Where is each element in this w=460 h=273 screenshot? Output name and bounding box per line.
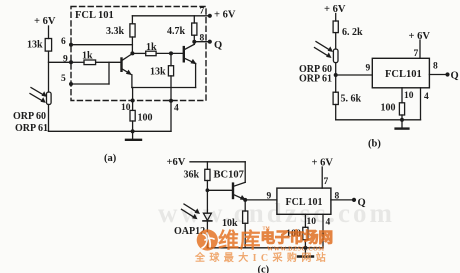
pin 4 (c) (323, 214, 331, 248)
caption (b) (368, 139, 381, 150)
svg-text:FCL101: FCL101 (385, 69, 422, 80)
photoresistor ORP60/61 (b) (315, 42, 339, 63)
bottom wire (b) (336, 88, 421, 120)
svg-text:维库: 维库 (218, 229, 261, 253)
svg-text:4.7k: 4.7k (167, 26, 186, 37)
pin 8 output Q (b) (429, 62, 458, 82)
svg-text:36k: 36k (184, 170, 200, 181)
wire +6V to R 13k (48, 26, 50, 39)
svg-text:13k: 13k (27, 40, 43, 51)
svg-text:全球最大IC采购网站: 全球最大IC采购网站 (194, 251, 330, 264)
wire LDR to bottom rail (48, 105, 50, 132)
wire emitter to pin 9 (c) (245, 192, 277, 202)
label FCL 101 (75, 10, 114, 21)
svg-text:8: 8 (200, 34, 205, 44)
pin 10 (121, 99, 135, 114)
svg-text:7: 7 (324, 177, 329, 187)
power +6V (b right) pin 7 (409, 31, 431, 59)
resistor 3.3k (106, 16, 135, 37)
pin 6 (61, 37, 132, 47)
resistor 1k (middle) (132, 42, 183, 56)
svg-text:(b): (b) (368, 139, 381, 150)
bottom wire (c) (207, 247, 323, 249)
svg-text:FCL 101: FCL 101 (286, 197, 323, 208)
resistor 13k (middle) (150, 53, 174, 131)
svg-text:8: 8 (433, 62, 438, 72)
wire rail to pin 10 (132, 88, 134, 111)
pin 8 output Q (c) (331, 192, 366, 209)
svg-text:FCL 101: FCL 101 (75, 10, 114, 21)
orange watermark 维库电子市场网 (194, 226, 333, 264)
IC box FCL101 (b) (372, 58, 429, 88)
wire base (c) (206, 188, 233, 192)
bottom wire (a) (49, 130, 172, 132)
photodiode OAP12 (182, 190, 212, 248)
power +6V (a right) (214, 10, 236, 21)
resistor 1k (pin 9) (71, 51, 121, 65)
power +6V (a left) (34, 16, 56, 27)
svg-text:6. 2k: 6. 2k (342, 27, 363, 38)
svg-text:ORP 61: ORP 61 (15, 123, 48, 134)
svg-text:4: 4 (326, 218, 331, 228)
pin 9 (63, 55, 73, 65)
svg-text:+ 6V: + 6V (214, 10, 236, 21)
wire LDR to node (334, 63, 338, 93)
svg-text:ORP 60: ORP 60 (13, 111, 46, 122)
svg-text:Q: Q (358, 198, 366, 209)
pin 8 label (200, 34, 205, 44)
power +6V (c left) (167, 157, 246, 168)
svg-text:(c): (c) (258, 265, 270, 273)
node collector Q1 (130, 37, 134, 55)
node 1k/13k (169, 51, 173, 55)
svg-text:ORP 61: ORP 61 (299, 74, 332, 85)
photoresistor ORP60/61 (a) (30, 88, 51, 105)
wire node to pin 9 (b) (336, 64, 373, 76)
svg-text:(a): (a) (104, 153, 117, 164)
svg-text:13k: 13k (150, 67, 166, 78)
caption (c) (258, 265, 270, 273)
svg-text:10: 10 (404, 91, 414, 101)
transistor Q2 (a right) (184, 44, 197, 64)
emitter rail (a) (131, 64, 196, 88)
svg-text:4: 4 (424, 92, 429, 102)
svg-text:3.3k: 3.3k (106, 26, 125, 37)
resistor 13k (a left) (27, 39, 52, 52)
svg-text:4: 4 (174, 104, 179, 114)
ground (c) (298, 246, 313, 257)
node emitter (c) (243, 198, 247, 202)
svg-text:100: 100 (138, 113, 153, 124)
svg-text:电子市场网: 电子市场网 (261, 229, 334, 247)
svg-text:9: 9 (267, 192, 272, 202)
resistor 36k (184, 162, 211, 191)
svg-text:Q: Q (451, 71, 459, 82)
svg-text:1k: 1k (146, 42, 157, 53)
label ORP 60 / ORP 61 (b) (299, 64, 332, 85)
svg-text:10k: 10k (222, 218, 238, 229)
label Q (a) (214, 40, 222, 51)
svg-text:Q: Q (214, 40, 222, 51)
svg-text:7: 7 (200, 7, 205, 17)
svg-text:10: 10 (121, 103, 131, 113)
svg-text:9: 9 (63, 55, 68, 65)
label OAP12 (174, 226, 205, 237)
resistor 4.7k (167, 16, 197, 45)
pin 5 loop (61, 62, 109, 86)
resistor 5.6k (333, 92, 361, 120)
svg-text:9: 9 (366, 64, 371, 74)
pin 4 (169, 99, 179, 114)
IC box FCL 101 (c) (277, 188, 331, 214)
ground (b) (396, 118, 409, 129)
svg-text:5: 5 (61, 74, 66, 84)
label ORP 60 / ORP 61 (13, 111, 48, 134)
svg-text:100: 100 (381, 103, 396, 114)
dashed box FCL101 (a) (71, 7, 206, 101)
transistor BC107 (233, 162, 246, 200)
svg-text:5. 6k: 5. 6k (341, 94, 362, 105)
svg-text:WWW.DZSC.COM: WWW.DZSC.COM (267, 246, 325, 253)
svg-text:10: 10 (307, 217, 317, 227)
svg-text:1k: 1k (82, 51, 93, 62)
label BC107 (214, 170, 244, 181)
svg-text:7: 7 (414, 49, 419, 59)
pin 7 label (200, 7, 212, 18)
transistor Q1 (a left) (122, 54, 133, 75)
node Q output junction (192, 40, 212, 44)
pin 4 label (b) (424, 92, 429, 102)
caption (a) (104, 153, 117, 164)
power +6V (c right) pin 7 (312, 158, 334, 189)
pin 10 (c) with resistor 100 (286, 214, 316, 248)
svg-text:+6V: +6V (167, 157, 186, 168)
resistor 10k (222, 200, 248, 248)
svg-text:6: 6 (61, 37, 66, 47)
svg-text:+ 6V: + 6V (324, 4, 346, 15)
ground (a) (126, 129, 141, 140)
wire 13k to LDR node (48, 51, 50, 92)
svg-text:BC107: BC107 (214, 170, 244, 181)
pin 10 (b) with resistor 100 (381, 88, 414, 120)
resistor 100 (a) (130, 110, 153, 131)
power +6V (b top) (324, 4, 346, 21)
svg-text:+ 6V: + 6V (34, 16, 56, 27)
wire node to pin 9 (49, 61, 72, 63)
top rail inside box (a) (132, 15, 209, 17)
resistor 6.2k (333, 21, 363, 49)
